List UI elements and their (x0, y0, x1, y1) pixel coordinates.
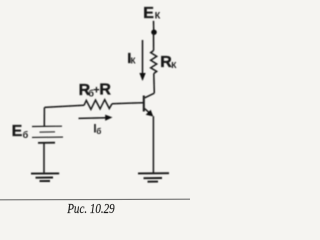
wire battery to left ground (43, 144, 45, 173)
ground right (138, 173, 169, 182)
wire Rk to collector (153, 74, 156, 94)
label Ik (127, 50, 135, 67)
svg-text:б: б (96, 127, 101, 136)
node junction dot at Ek (151, 29, 157, 35)
label Eb (12, 123, 29, 140)
resistor Rk (151, 51, 157, 74)
svg-text:Рис. 10.29: Рис. 10.29 (66, 202, 114, 217)
svg-text:E: E (12, 123, 23, 140)
wire Ek label to node (153, 21, 155, 30)
wire corner to battery Eb (43, 107, 45, 126)
label Rb+R (79, 81, 112, 99)
wire Rb to transistor base (112, 103, 143, 104)
svg-text:К: К (131, 57, 136, 66)
svg-text:К: К (171, 60, 177, 70)
label Ek (143, 5, 161, 22)
wire emitter to right ground (152, 116, 154, 172)
figure separator rule (0, 198, 190, 201)
battery Eb (32, 126, 63, 143)
ground left (31, 173, 59, 181)
current arrow Ik (142, 40, 144, 74)
svg-text:б: б (23, 130, 29, 140)
svg-text:К: К (155, 11, 161, 21)
wire node to resistor Rk (153, 33, 155, 50)
label Ib (93, 124, 101, 137)
transistor VT base bar (143, 96, 145, 112)
current arrow Ib (79, 117, 108, 120)
label Rk (160, 54, 177, 71)
transistor VT collector lead (145, 93, 155, 98)
transistor VT emitter lead with arrow (145, 109, 151, 114)
wire battery corner to resistor Rb (45, 105, 85, 107)
resistor Rb+R (84, 100, 112, 110)
svg-text:E: E (143, 5, 154, 22)
svg-text:R: R (99, 81, 111, 98)
